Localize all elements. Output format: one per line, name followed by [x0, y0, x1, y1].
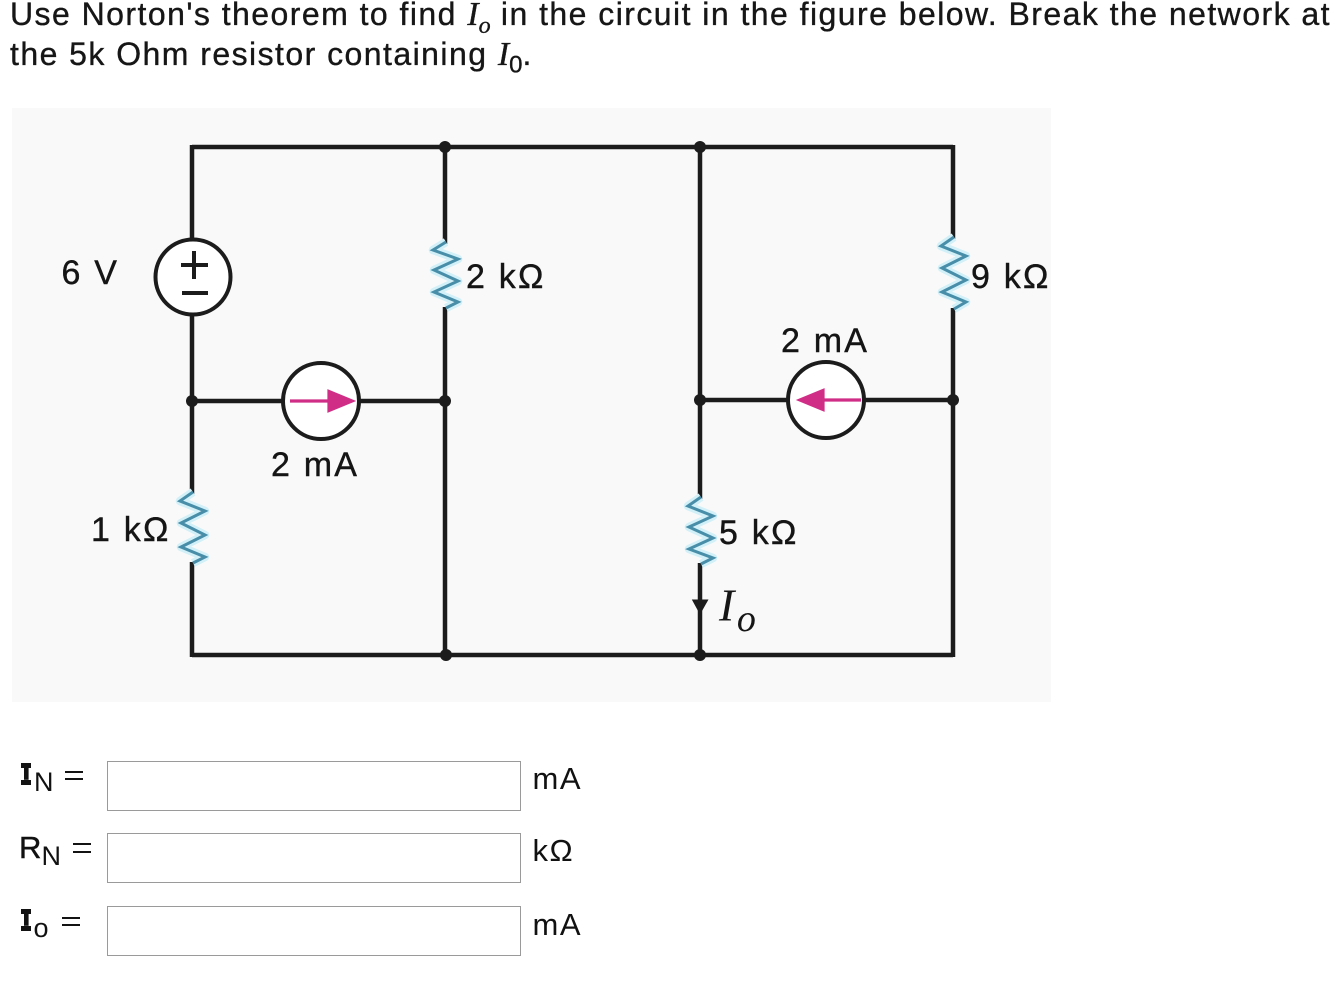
svg-text:2 mA: 2 mA [271, 446, 359, 484]
svg-text:Io: Io [718, 580, 756, 641]
svg-text:6 V: 6 V [62, 254, 120, 292]
svg-text:9 kΩ: 9 kΩ [971, 258, 1051, 296]
svg-text:1 kΩ: 1 kΩ [91, 511, 171, 549]
svg-text:2 kΩ: 2 kΩ [466, 258, 546, 296]
svg-text:5 kΩ: 5 kΩ [719, 514, 799, 552]
svg-text:2 mA: 2 mA [781, 322, 869, 360]
